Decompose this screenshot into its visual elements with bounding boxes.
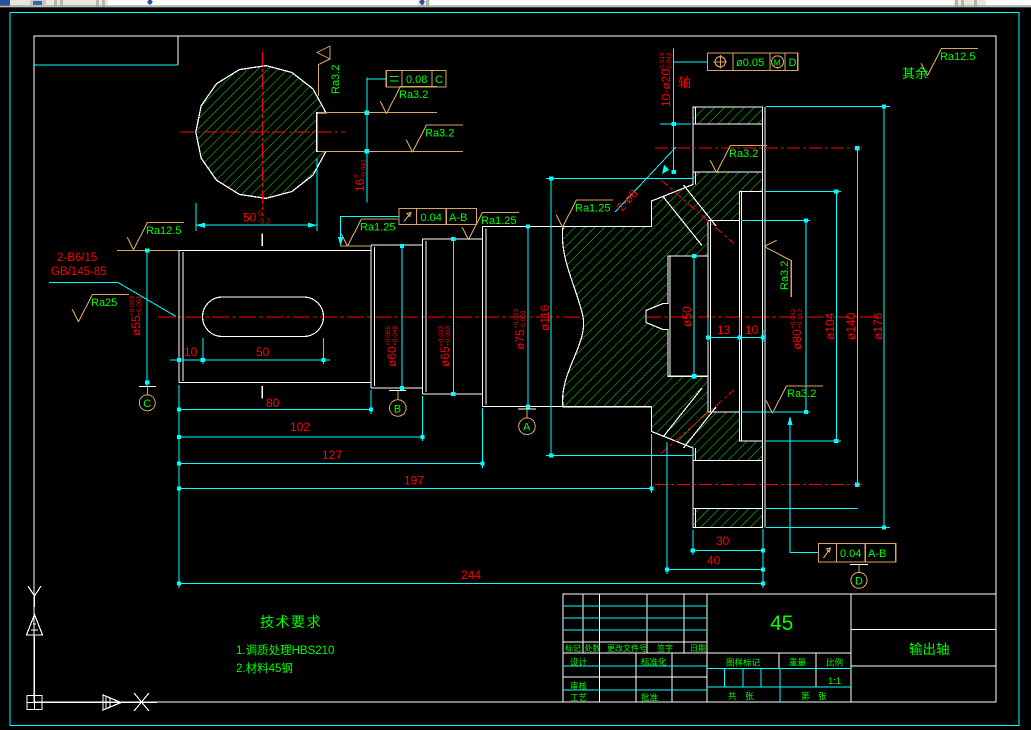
bolt hole centerline top — [655, 147, 862, 149]
svg-text:M: M — [774, 58, 781, 68]
shaft segment ø55 with keyway — [179, 107, 765, 528]
svg-text:C: C — [143, 398, 151, 410]
step to ø60 — [370, 245, 372, 388]
bolt hole top (ø20) — [693, 124, 763, 172]
svg-text:0.04: 0.04 — [421, 212, 442, 224]
svg-text:Ra1.25: Ra1.25 — [481, 215, 516, 227]
svg-text:13: 13 — [717, 323, 731, 337]
50-0.2 dimension under circle — [195, 203, 197, 231]
svg-text:Ra3.2: Ra3.2 — [787, 388, 816, 400]
flange rim band bottom (hatched) — [693, 509, 763, 528]
svg-text:审核: 审核 — [570, 681, 588, 691]
svg-text:图样标记: 图样标记 — [726, 658, 761, 668]
frame runout 0.04|A-B top — [399, 209, 477, 225]
ø60 dim line — [340, 245, 371, 247]
svg-text:更改文件号: 更改文件号 — [607, 643, 647, 653]
ø65 dim line — [452, 239, 454, 394]
dimensions — [49, 49, 890, 589]
datum symbols — [139, 387, 868, 589]
Ra12.5 top-right with 其余 — [921, 49, 978, 76]
ø140 dim — [856, 148, 858, 485]
svg-text:2.材料45钢: 2.材料45钢 — [236, 661, 293, 675]
ø80 dim — [741, 220, 810, 222]
2-ø8 hole walls bottom — [684, 407, 717, 448]
svg-text:244: 244 — [461, 568, 481, 582]
svg-text:共 张: 共 张 — [728, 691, 754, 701]
svg-text:10-ø20: 10-ø20 — [659, 69, 673, 107]
svg-text:1.调质处理HBS210: 1.调质处理HBS210 — [236, 644, 334, 657]
bolt hole centerline bottom — [655, 484, 862, 486]
svg-text:+0.042: +0.042 — [790, 309, 797, 329]
keyway cross-section view: hatched circle with keyway flat — [180, 52, 463, 399]
svg-text:重量: 重量 — [789, 658, 807, 668]
leader 2-ø8 — [615, 147, 676, 212]
svg-text:输出轴: 输出轴 — [909, 642, 950, 657]
svg-text:ø176: ø176 — [871, 312, 885, 340]
svg-text:ø65: ø65 — [438, 346, 452, 367]
technical requirements text — [236, 614, 334, 675]
svg-text:-0.003: -0.003 — [520, 310, 527, 329]
svg-text:0.04: 0.04 — [840, 548, 861, 560]
2-ø8 hole walls top — [684, 185, 717, 226]
svg-text:Ra3.2: Ra3.2 — [399, 89, 428, 101]
svg-text:Ra3.2: Ra3.2 — [330, 65, 342, 94]
svg-text:+0.012: +0.012 — [797, 309, 804, 329]
svg-text:+0.023: +0.023 — [438, 326, 445, 346]
svg-text:102: 102 — [290, 420, 310, 434]
datum C — [139, 386, 156, 388]
svg-text:D: D — [855, 576, 863, 588]
svg-text:0: 0 — [354, 174, 361, 178]
svg-text:0.08: 0.08 — [406, 74, 427, 86]
ø75 dim line — [527, 227, 529, 410]
frame runout 0.04|A-B bottom right — [819, 543, 896, 561]
svg-text:技术要求: 技术要求 — [260, 614, 322, 630]
svg-text:签字: 签字 — [657, 643, 673, 653]
leader for 2-B6/15 — [49, 283, 176, 317]
keyway 10 / 50 dims — [202, 338, 204, 364]
datum D — [850, 564, 868, 566]
svg-text:40: 40 — [707, 554, 721, 568]
svg-text:-0.043: -0.043 — [361, 159, 368, 178]
svg-text:10: 10 — [184, 345, 198, 359]
ø50 bore dim — [693, 256, 695, 379]
svg-text:A-B: A-B — [868, 548, 886, 560]
datum B — [389, 390, 406, 392]
flange broken-out section body (hatched) — [562, 172, 762, 461]
Ra1.25 over ø65 — [462, 213, 519, 240]
svg-text:2-B6/15: 2-B6/15 — [57, 252, 97, 264]
horizontal dim texts (red) — [184, 323, 759, 582]
40 dim — [667, 569, 763, 571]
svg-text:GB/145-85: GB/145-85 — [51, 266, 107, 278]
80 dim — [179, 409, 371, 411]
svg-text:C: C — [435, 74, 443, 86]
svg-text:0: 0 — [258, 211, 262, 218]
Ra12.5 top-left — [127, 223, 184, 250]
svg-text:ø80: ø80 — [790, 329, 804, 350]
Ra3.2 keyway top — [380, 87, 437, 114]
ø176 dim + extensions — [766, 106, 890, 108]
svg-text:+0.045: +0.045 — [392, 326, 399, 346]
svg-text:ø55: ø55 — [129, 315, 143, 336]
svg-text:127: 127 — [322, 448, 342, 462]
svg-text:+0.003: +0.003 — [136, 296, 143, 316]
ø116 dim + extension — [546, 178, 693, 180]
step to ø75 — [482, 227, 484, 407]
svg-text:1:1: 1:1 — [828, 676, 841, 687]
Ra3.2 flange recess bottom — [766, 386, 823, 413]
13 / 10 bore dims — [707, 317, 709, 342]
rotated diameter dim texts (red) — [51, 52, 885, 367]
svg-text:D: D — [789, 57, 797, 69]
Ra3.2 keyway bottom — [406, 125, 463, 152]
svg-text:+0.029: +0.029 — [129, 296, 136, 316]
svg-text:+0.065: +0.065 — [385, 326, 392, 346]
flange rim band top (hatched) — [693, 107, 763, 124]
svg-text:轴: 轴 — [678, 75, 691, 90]
102 dim — [179, 436, 423, 438]
svg-text:80: 80 — [266, 396, 280, 410]
title block — [563, 594, 996, 702]
svg-text:Ra1.25: Ra1.25 — [360, 222, 395, 234]
title block texts — [565, 612, 950, 703]
surface finish symbols — [72, 46, 978, 413]
keyway slot on ø55 — [203, 297, 324, 337]
bolt hole bottom (ø20) — [693, 461, 763, 509]
svg-text:Ra12.5: Ra12.5 — [146, 225, 181, 237]
svg-text:16: 16 — [353, 178, 367, 192]
svg-text:ø0.05: ø0.05 — [736, 57, 764, 69]
rotated Ra3.2 at keyway flat (section view) — [317, 46, 330, 96]
svg-text:197: 197 — [404, 474, 424, 488]
svg-text:+0.003: +0.003 — [445, 326, 452, 346]
datum A — [518, 408, 536, 410]
svg-text:标准化: 标准化 — [641, 657, 667, 667]
svg-text:45: 45 — [770, 612, 793, 635]
svg-text:工艺: 工艺 — [570, 693, 587, 703]
frame =|0.08|C — [386, 71, 446, 87]
bore chamfer double lines — [707, 221, 709, 413]
svg-text:日期: 日期 — [690, 644, 706, 653]
svg-text:50: 50 — [256, 345, 270, 359]
svg-text:第 张: 第 张 — [801, 691, 827, 701]
Ra25 left — [72, 295, 129, 322]
svg-text:Ra25: Ra25 — [91, 297, 117, 309]
svg-text:B: B — [394, 403, 401, 415]
127 dim — [179, 463, 483, 465]
svg-text:-0.019: -0.019 — [659, 52, 666, 71]
frame position ⊕|ø0.05|M|D — [708, 53, 798, 70]
svg-text:30: 30 — [716, 534, 730, 548]
svg-text:A: A — [523, 422, 531, 434]
svg-text:-0.2: -0.2 — [258, 219, 270, 226]
tolerance frames — [338, 53, 896, 562]
svg-text:标记: 标记 — [565, 643, 581, 653]
2-ø8 hole axes red — [661, 180, 734, 244]
keyway slot extension lines (tan) — [318, 112, 437, 114]
svg-text:A-B: A-B — [449, 212, 467, 224]
svg-text:ø140: ø140 — [844, 312, 858, 340]
Ra1.25 over ø60 — [341, 219, 398, 246]
ø104 dim — [765, 191, 841, 193]
svg-text:Ra12.5: Ra12.5 — [940, 51, 975, 63]
rotated Ra3.2 at flange right face — [764, 240, 791, 297]
svg-text:10: 10 — [745, 323, 759, 337]
section cut plane ticks — [261, 234, 263, 247]
svg-text:Ra3.2: Ra3.2 — [779, 261, 791, 290]
main axis centerline — [158, 316, 880, 318]
svg-text:Ra1.25: Ra1.25 — [575, 203, 610, 215]
ø55 dim — [117, 250, 179, 252]
10-ø20 dim line — [673, 49, 675, 173]
Ra1.25 over ø75 — [556, 200, 613, 227]
svg-text:批准: 批准 — [641, 693, 659, 703]
svg-text:ø116: ø116 — [538, 304, 552, 331]
toolbar fragment strip at very top — [0, 0, 1031, 7]
svg-text:ø60: ø60 — [385, 346, 399, 367]
Ra3.2 flange bolt hole — [710, 146, 767, 173]
30 dim — [693, 550, 763, 552]
svg-text:处数: 处数 — [585, 643, 601, 653]
UCS icon bottom-left — [27, 586, 158, 711]
244 dim — [179, 583, 763, 585]
svg-text:ø75: ø75 — [513, 329, 527, 350]
svg-text:比例: 比例 — [826, 658, 843, 668]
step to ø65 — [422, 239, 424, 394]
svg-text:50: 50 — [243, 211, 257, 225]
svg-text:-0.042: -0.042 — [666, 52, 673, 71]
svg-text:其余: 其余 — [902, 66, 928, 81]
svg-text:+0.023: +0.023 — [513, 309, 520, 329]
svg-text:ø50: ø50 — [680, 306, 694, 327]
svg-text:Ra3.2: Ra3.2 — [425, 128, 454, 140]
16 0/-0.043 keyway width dimension — [366, 78, 368, 203]
svg-text:ø104: ø104 — [823, 312, 837, 340]
extension lines vertical for length dims — [178, 385, 180, 588]
frame corner box top-left — [177, 36, 179, 65]
svg-text:Ra3.2: Ra3.2 — [729, 148, 758, 160]
main shaft view — [158, 107, 880, 528]
svg-text:设计: 设计 — [570, 657, 588, 667]
197 dim — [179, 488, 652, 490]
dimension endpoint dots — [145, 104, 886, 585]
section circle centerlines — [180, 131, 345, 133]
